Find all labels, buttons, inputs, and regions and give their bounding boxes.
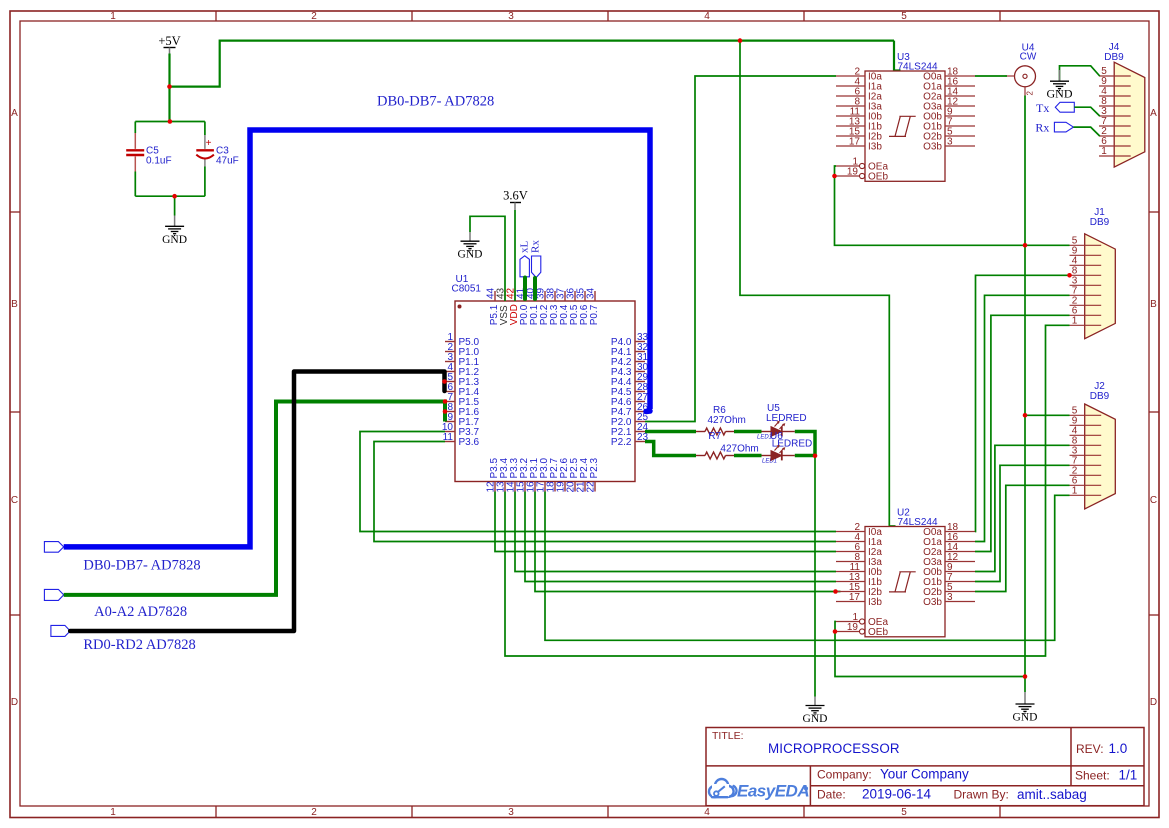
wire +5V branch to top rail	[170, 41, 895, 87]
wire R6 to LED	[734, 430, 762, 434]
ground GND (LED chain)	[803, 706, 828, 726]
wire P0.0 stub	[523, 278, 527, 300]
svg-text:2: 2	[1026, 91, 1035, 96]
svg-text:2: 2	[311, 807, 317, 818]
svg-text:LEDRED: LEDRED	[772, 439, 813, 450]
svg-text:LEDRED: LEDRED	[766, 413, 807, 424]
svg-text:1: 1	[1101, 146, 1107, 157]
U2 OEa/OEb pins	[836, 621, 860, 623]
svg-text:P3.6: P3.6	[459, 437, 480, 448]
svg-text:Tx: Tx	[1036, 101, 1049, 115]
svg-text:427Ohm: 427Ohm	[708, 415, 746, 426]
connector J1 DB9	[1085, 234, 1116, 339]
LED U6 LEDRED	[762, 431, 813, 465]
wire blue bus	[64, 130, 650, 547]
svg-text:17: 17	[849, 137, 861, 148]
capacitor C3 (polarized)	[196, 122, 238, 197]
net tag A0-A2 AD7828 (green bus)	[44, 589, 63, 600]
wire LED junction to ground	[814, 456, 816, 697]
svg-text:R7: R7	[708, 431, 721, 442]
svg-text:A: A	[1150, 108, 1157, 119]
U1 right pins 33-23	[611, 332, 649, 448]
svg-text:LED1: LED1	[762, 459, 777, 465]
wire P2.0 to U3 I0a	[645, 76, 836, 422]
U3 output pins	[945, 75, 975, 77]
J4 pins	[1099, 75, 1131, 77]
buzzer U4 CW	[1005, 43, 1037, 96]
node cap box top	[168, 119, 173, 124]
svg-text:A: A	[11, 108, 18, 119]
svg-text:CW: CW	[1020, 52, 1037, 63]
port flag Tx	[1055, 102, 1074, 112]
port flag xL	[520, 256, 529, 277]
wire P3.3 to U2 I0b	[515, 492, 836, 572]
net tag DB0-DB7- AD7828 (blue bus)	[44, 542, 63, 553]
buffer IC U2 74LS244	[865, 527, 945, 637]
connector J4 DB9	[1114, 62, 1145, 167]
svg-text:3: 3	[947, 137, 953, 148]
svg-text:GND: GND	[1047, 87, 1073, 101]
ground GND (right bottom)	[1013, 704, 1038, 724]
svg-text:A0-A2 AD7828: A0-A2 AD7828	[94, 604, 187, 620]
node P1.6 bus	[443, 409, 448, 414]
svg-text:amit..sabag: amit..sabag	[1017, 787, 1087, 802]
J1 pins	[1070, 244, 1102, 246]
svg-text:O3b: O3b	[923, 597, 942, 608]
svg-text:Rx: Rx	[530, 240, 542, 253]
node J2 pin5 / GND line	[1023, 413, 1028, 418]
svg-text:DB0-DB7- AD7828: DB0-DB7- AD7828	[83, 558, 200, 574]
svg-text:3: 3	[508, 11, 514, 22]
svg-text:OEb: OEb	[868, 627, 888, 638]
svg-text:D: D	[1150, 697, 1157, 708]
wire P2.2 to R7	[645, 442, 696, 456]
title block table	[706, 728, 1144, 806]
wire VSS to ground	[470, 216, 505, 301]
wire U2 O0b to J2 pin8	[975, 445, 1070, 571]
svg-text:EasyEDA: EasyEDA	[737, 782, 809, 801]
U1 bottom pins 12-22	[485, 457, 600, 492]
svg-text:DB0-DB7- AD7828: DB0-DB7- AD7828	[377, 94, 494, 110]
svg-text:GND: GND	[458, 249, 483, 261]
svg-text:TITLE:: TITLE:	[712, 730, 744, 742]
ground GND (J4)	[1047, 81, 1073, 101]
svg-text:4: 4	[704, 11, 710, 22]
svg-text:RD0-RD2 AD7828: RD0-RD2 AD7828	[83, 637, 195, 653]
svg-text:17: 17	[849, 592, 861, 603]
svg-text:34: 34	[585, 287, 596, 299]
svg-text:3: 3	[947, 592, 953, 603]
wire R7 to LED	[734, 454, 762, 458]
wire U2 O2a to J1 pin6	[975, 315, 1070, 551]
U1 top pins 44-34	[485, 287, 600, 325]
svg-text:+: +	[206, 138, 212, 149]
svg-text:Company:: Company:	[817, 768, 872, 782]
wire cap box bottom	[135, 195, 205, 197]
svg-text:Rx: Rx	[1035, 121, 1049, 135]
svg-text:47uF: 47uF	[216, 155, 239, 166]
resistor R6 427Ohm	[696, 405, 746, 435]
svg-text:DB9: DB9	[1090, 217, 1110, 228]
svg-text:GND: GND	[1013, 712, 1038, 724]
svg-text:P2.3: P2.3	[589, 457, 600, 478]
svg-text:P2.2: P2.2	[611, 437, 632, 448]
wire U2 O1b to J2 pin7	[975, 465, 1070, 581]
node P1.5 bus	[443, 399, 448, 404]
svg-text:19: 19	[847, 622, 859, 633]
wire +5V drop to U2 VCC	[740, 41, 889, 527]
op IC U1 C8051	[452, 274, 636, 482]
svg-text:Sheet:: Sheet:	[1075, 769, 1110, 783]
wire U2 O2b to J2 pin6	[975, 485, 1070, 591]
svg-text:0.1uF: 0.1uF	[146, 155, 172, 166]
svg-text:I3b: I3b	[868, 597, 882, 608]
U3 input pins	[836, 75, 865, 77]
wire P3.6 to U2 I1a	[374, 442, 836, 542]
svg-text:Your Company: Your Company	[880, 767, 969, 782]
svg-text:3.6V: 3.6V	[503, 189, 528, 203]
U1 left pins 1-11	[442, 332, 480, 448]
wire P3.0 to J2 pin1	[545, 492, 1070, 641]
ground GND (U1 VSS)	[458, 241, 483, 261]
svg-text:OEb: OEb	[868, 172, 888, 183]
J2 pins	[1070, 414, 1102, 416]
wire LED to junction	[795, 454, 815, 458]
wire Rx to J4 pin2	[1073, 127, 1099, 136]
wire +5V drop to U3 VCC	[893, 41, 895, 71]
wire P3.2 to U2 I1b	[525, 492, 836, 582]
svg-text:C: C	[11, 495, 18, 506]
wire +5V vertical to cap node	[168, 54, 170, 122]
svg-text:1.0: 1.0	[1109, 741, 1128, 756]
svg-text:427Ohm: 427Ohm	[720, 443, 758, 454]
svg-text:O3b: O3b	[923, 142, 942, 153]
wire U2 O0a to J1 pin8	[975, 275, 1070, 531]
wire P3.1 to U2 I2b	[535, 492, 841, 592]
svg-text:+5V: +5V	[158, 34, 180, 48]
wire black bus	[70, 372, 444, 632]
resistor R7 427Ohm	[696, 431, 759, 459]
net tag RD0-RD2 AD7828 (black bus)	[51, 625, 70, 636]
svg-text:Date:: Date:	[817, 788, 846, 802]
svg-text:5: 5	[901, 11, 907, 22]
node +5V/cap junction	[167, 84, 172, 89]
svg-text:4: 4	[704, 807, 710, 818]
svg-text:DB9: DB9	[1090, 391, 1110, 402]
svg-text:Drawn By:: Drawn By:	[954, 788, 1009, 802]
wire green bus	[64, 402, 445, 595]
buffer IC U3 74LS244	[865, 71, 945, 181]
svg-text:GND: GND	[162, 234, 187, 246]
EasyEDA logo	[709, 779, 809, 801]
svg-text:B: B	[11, 299, 18, 310]
svg-text:1: 1	[110, 807, 116, 818]
wire LED to junction	[795, 432, 815, 457]
svg-text:1: 1	[1072, 315, 1078, 326]
wire U3 O0a to U4	[975, 75, 1007, 77]
node U2 I2b	[833, 589, 838, 594]
wire P3.5 to U2 I2a	[495, 492, 836, 552]
svg-text:xL: xL	[518, 241, 530, 254]
svg-text:P0.7: P0.7	[589, 304, 600, 325]
LED U5 LEDRED	[757, 403, 807, 441]
node U3 OEb	[832, 174, 837, 179]
svg-text:22: 22	[585, 481, 596, 493]
node LED junction	[813, 454, 818, 459]
svg-text:1: 1	[110, 11, 116, 22]
wire Tx to J4 pin3	[1074, 107, 1099, 116]
wire P0.1 stub	[533, 278, 537, 299]
wire J4 pin5 to ground	[1060, 66, 1100, 81]
node J1 pin8	[1067, 273, 1072, 278]
svg-text:DB9: DB9	[1104, 52, 1124, 63]
node P1.3 bus	[442, 379, 447, 384]
ground GND (cap box)	[174, 196, 176, 215]
svg-text:1: 1	[1072, 485, 1078, 496]
U3 OEa/OEb pins	[836, 165, 860, 167]
node J1 pin5 / GND line	[1023, 243, 1028, 248]
svg-text:GND: GND	[803, 713, 828, 725]
U2 output pins	[945, 531, 975, 533]
wire P2.1 to R6	[645, 430, 696, 434]
wire U3 OEa/OEb to J1 pin5 net	[835, 166, 1070, 245]
node GND right junction	[1023, 674, 1028, 679]
node cap box bottom	[172, 194, 177, 199]
svg-text:19: 19	[847, 167, 859, 178]
svg-text:1/1: 1/1	[1119, 768, 1138, 783]
svg-text:C: C	[1150, 495, 1157, 506]
svg-text:MICROPROCESSOR: MICROPROCESSOR	[768, 741, 900, 756]
port flag Rx	[532, 256, 541, 278]
svg-text:I3b: I3b	[868, 142, 882, 153]
svg-text:B: B	[1150, 299, 1157, 310]
connector J2 DB9	[1085, 404, 1116, 509]
wire U2 OEa/OEb to ground net	[835, 622, 1025, 677]
svg-text:5: 5	[901, 807, 907, 818]
wire VDD 3.6V	[514, 210, 516, 301]
svg-text:2: 2	[311, 11, 317, 22]
node U2 OEb	[833, 629, 838, 634]
wire cap box top	[135, 121, 205, 123]
node +5V rail branch	[738, 38, 743, 43]
svg-text:D: D	[11, 697, 18, 708]
svg-text:C8051: C8051	[452, 284, 482, 295]
capacitor C5	[126, 122, 171, 197]
svg-text:REV:: REV:	[1076, 742, 1104, 756]
wire P3.4 to J1 pin1	[505, 325, 1070, 656]
svg-text:3: 3	[508, 807, 514, 818]
svg-text:2019-06-14: 2019-06-14	[862, 787, 932, 802]
wire U2 O1a to J1 pin7	[975, 295, 1070, 541]
wire U4 pin2 / GND net vertical	[1024, 96, 1026, 693]
wire J2 pin5 from GND net	[1025, 414, 1070, 416]
U2 input pins	[836, 531, 865, 533]
wire P3.7 to U2 I0a	[360, 432, 836, 532]
port flag Rx	[1054, 122, 1073, 132]
